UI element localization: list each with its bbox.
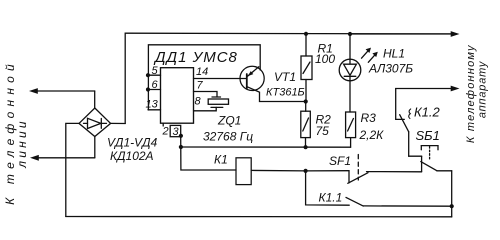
wire coil to SF1 junction (251, 169, 305, 172)
transistor VT1 emitter with arrow (248, 67, 259, 77)
resistor R1 (301, 34, 312, 102)
arrow to telephone apparatus (upper) (350, 31, 460, 37)
wire top supply rail (125, 33, 453, 123)
svg-text:К телефонному: К телефонному (465, 44, 477, 143)
LED HL1 (339, 34, 361, 112)
node junction dot HL1 top (348, 32, 352, 36)
svg-text:7: 7 (197, 80, 204, 92)
svg-text:HL1: HL1 (383, 47, 405, 61)
svg-text:2,2К: 2,2К (359, 128, 385, 142)
resistor R2 (301, 102, 311, 148)
svg-text:R3: R3 (361, 111, 377, 125)
resistor R3 (346, 112, 356, 147)
svg-text:13: 13 (146, 99, 159, 111)
wire bridge right vertex to riser (111, 122, 126, 124)
svg-text:SБ1: SБ1 (416, 128, 440, 143)
relay contact K1.1 (306, 171, 452, 206)
wire pin 5 stub (148, 74, 161, 76)
relay coil K1 (236, 158, 251, 185)
wire pin 6 stub (148, 89, 161, 91)
node dot R2 bottom (304, 145, 308, 149)
wire emitter supply rail to pins 5,6,13 (148, 45, 260, 110)
svg-text:ДД1 УМС8: ДД1 УМС8 (153, 49, 238, 66)
node dot collector junction (304, 99, 308, 103)
svg-text:VД1-VД4: VД1-VД4 (107, 136, 158, 150)
svg-text:ZQ1: ZQ1 (217, 114, 241, 128)
arrow to telephone line (upper) (29, 88, 95, 108)
svg-text:100: 100 (315, 52, 335, 66)
svg-text:32768 Гц: 32768 Гц (203, 130, 253, 144)
wire bottom common rail (66, 216, 452, 218)
node dot pin5 (146, 73, 150, 77)
svg-text:6: 6 (152, 79, 159, 91)
node dot mid rail tap (179, 145, 183, 149)
wire right drop to bottom rail (451, 171, 453, 217)
pin 2 stub (162, 123, 164, 126)
svg-text:14: 14 (196, 66, 208, 78)
svg-text:2: 2 (162, 126, 169, 138)
transistor VT1 collector wire to node (247, 87, 305, 102)
switch SF1 (306, 155, 422, 184)
svg-text:линии: линии (15, 118, 29, 168)
diode bridge VD1-VD4 (79, 108, 111, 137)
diode symbol inside bridge (84, 118, 107, 128)
wire pin 3 drop (181, 137, 236, 170)
svg-text:АЛ307Б: АЛ307Б (368, 62, 413, 76)
node junction dot R1 top (304, 32, 308, 36)
arrow to telephone line (lower) (30, 137, 95, 161)
wire pin 8 to crystal bottom (194, 107, 217, 110)
svg-text:КТ361Б: КТ361Б (266, 87, 305, 99)
crystal ZQ1 (208, 97, 228, 107)
wire bridge left vertex to bottom rail (66, 123, 79, 216)
svg-text:КД102А: КД102А (110, 149, 154, 163)
svg-text:VT1: VT1 (274, 70, 296, 84)
wire mid rail (181, 146, 351, 148)
arrow to telephone apparatus (lower) (396, 86, 460, 92)
svg-text:5: 5 (152, 65, 159, 77)
svg-text:К1: К1 (214, 153, 228, 167)
LED emission arrows (362, 48, 378, 63)
node dot pin6 (146, 87, 150, 91)
transistor VT1 base bar (246, 74, 248, 89)
svg-text:8: 8 (195, 96, 202, 108)
IC DD1 body (161, 68, 194, 124)
wire pin 13 stub (148, 109, 161, 111)
svg-text:аппарату: аппарату (476, 60, 488, 118)
svg-text:К1.2: К1.2 (414, 105, 441, 120)
pushbutton SB1 (421, 146, 452, 172)
node dot SF1 junction (304, 169, 308, 173)
wire pin 7 to crystal top (194, 92, 218, 98)
svg-text:75: 75 (316, 124, 330, 138)
transistor VT1 circle (240, 66, 264, 90)
svg-text:SF1: SF1 (329, 154, 351, 168)
wire pin 14 to base (194, 78, 247, 80)
relay contact K1.2 (396, 89, 422, 157)
svg-text:3: 3 (173, 126, 180, 138)
node dot pin3 corner (179, 134, 183, 138)
node dot K1.1 right (450, 204, 454, 208)
svg-text:К1.1: К1.1 (319, 191, 343, 205)
pin 3 box (170, 125, 181, 136)
